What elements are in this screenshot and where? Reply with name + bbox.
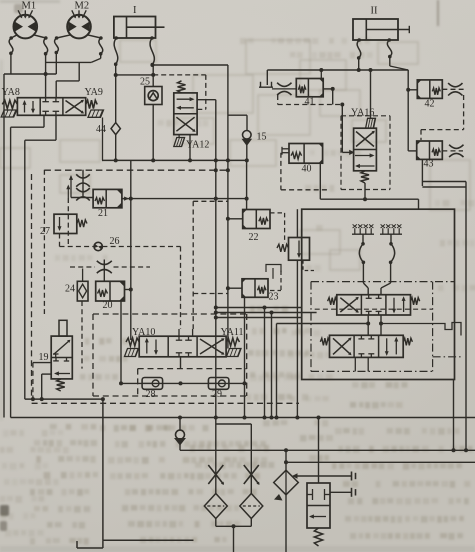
svg-text:20: 20 xyxy=(103,300,113,311)
svg-text:29: 29 xyxy=(212,389,222,400)
svg-text:26: 26 xyxy=(110,236,120,247)
svg-text:YA16: YA16 xyxy=(351,108,374,119)
svg-text:M2: M2 xyxy=(75,1,90,12)
svg-text:YA11: YA11 xyxy=(221,327,244,338)
svg-text:21: 21 xyxy=(98,208,108,219)
svg-text:YA9: YA9 xyxy=(85,87,103,98)
svg-text:43: 43 xyxy=(424,159,434,170)
svg-text:I: I xyxy=(133,5,137,16)
svg-text:YA8: YA8 xyxy=(2,87,20,98)
svg-text:23: 23 xyxy=(269,292,279,303)
svg-text:41: 41 xyxy=(305,97,315,108)
svg-text:24: 24 xyxy=(65,284,75,295)
svg-text:19: 19 xyxy=(39,352,49,363)
svg-text:28: 28 xyxy=(146,389,156,400)
svg-text:M1: M1 xyxy=(22,1,37,12)
svg-text:II: II xyxy=(371,6,378,17)
svg-text:15: 15 xyxy=(257,132,267,143)
svg-text:27: 27 xyxy=(40,226,50,237)
svg-text:22: 22 xyxy=(249,232,259,243)
svg-text:42: 42 xyxy=(425,99,435,110)
svg-text:YA10: YA10 xyxy=(132,327,155,338)
svg-text:25: 25 xyxy=(140,77,150,88)
svg-text:44: 44 xyxy=(96,124,106,135)
svg-text:40: 40 xyxy=(302,164,312,175)
